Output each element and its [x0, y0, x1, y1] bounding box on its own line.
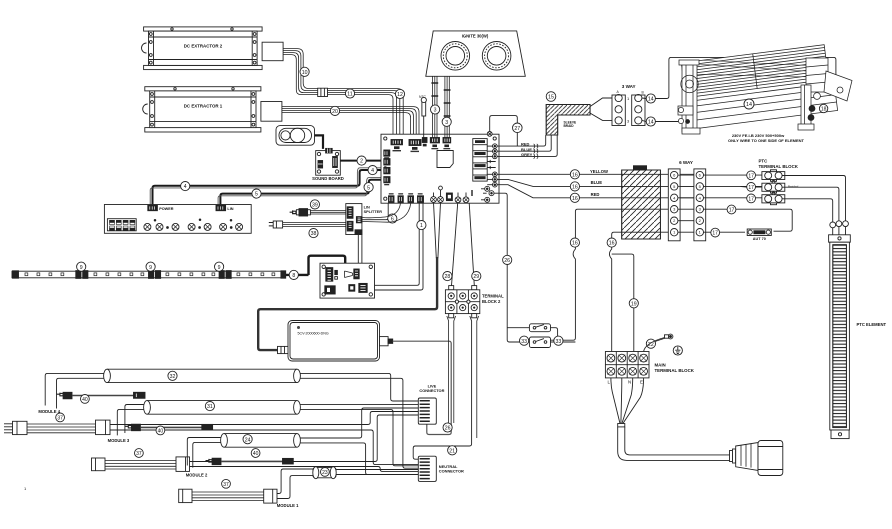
connector of DC extractor 1 — [261, 102, 282, 122]
tube 32 left wires — [45, 373, 103, 408]
sound board — [312, 148, 344, 181]
PTC element terminals — [830, 221, 849, 235]
label 9 — [215, 262, 224, 271]
svg-text:9: 9 — [80, 265, 83, 271]
wire 6-way pin 6 to PTC row 1 — [704, 174, 765, 176]
wire 6-way pin 1 to main terminal block L — [609, 232, 670, 351]
wire sleeve to 3-way pin 1 — [590, 98, 615, 107]
connector J4 (top) — [430, 138, 439, 150]
inline filter 23 — [313, 467, 336, 479]
wire PTC row2 to element terminal 2 — [782, 187, 839, 221]
brick barrel jack lead — [380, 337, 452, 435]
svg-text:28: 28 — [445, 274, 451, 280]
wire RED to braid sleeve — [497, 135, 546, 146]
wire 6-way pin 3 to switches — [551, 209, 671, 340]
svg-text:ONLY WIRE TO ONE SIDE OF ELEME: ONLY WIRE TO ONE SIDE OF ELEMENT — [728, 138, 804, 143]
svg-text:33: 33 — [521, 339, 527, 345]
svg-text:27: 27 — [514, 126, 520, 132]
audio jack lead 39 — [290, 209, 346, 216]
wire BLUE: PCB to 6-way pin 5 — [497, 179, 696, 186]
wire 2: sound board to PCB — [340, 160, 384, 162]
main terminal block — [605, 352, 649, 378]
label 23 — [321, 468, 330, 477]
relay output terminals — [487, 144, 497, 187]
PCB top-right screw terminal — [487, 132, 492, 137]
svg-text:POWER: POWER — [159, 207, 174, 211]
label 18 — [819, 104, 827, 112]
microcontroller chip U1 — [437, 151, 453, 168]
svg-text:6 WAY: 6 WAY — [679, 160, 693, 165]
hatched isolation block — [622, 165, 661, 239]
PTC terminal block row 3 — [762, 195, 785, 205]
label 16 — [607, 238, 616, 247]
NTC thermistor — [419, 95, 427, 138]
SEC_J — [4, 369, 418, 508]
svg-text:E: E — [640, 380, 643, 385]
wire 6-way pin 1 to thermal cutout (left side) — [704, 231, 746, 233]
svg-text:MODULE 1: MODULE 1 — [277, 503, 299, 508]
label 9 — [77, 262, 86, 271]
wire PTC row3 to element terminal 1 — [782, 199, 833, 222]
SEC_B — [381, 95, 557, 203]
wire 3-way B3 to fan lower terminal — [655, 121, 687, 123]
fan motor — [806, 58, 852, 101]
svg-text:PTC: PTC — [759, 159, 769, 164]
glass tube 32 — [104, 369, 301, 382]
wire BLUE to braid sleeve — [497, 135, 551, 151]
svg-text:40: 40 — [82, 397, 88, 403]
label 26 — [503, 255, 512, 264]
label 27 — [513, 123, 523, 133]
wire break marks — [534, 144, 538, 148]
label 1 — [417, 221, 426, 230]
strip end cap — [281, 271, 286, 278]
control panel — [104, 205, 251, 234]
fan right end flange — [798, 85, 814, 130]
SEC_E — [497, 159, 886, 439]
speaker cable left — [431, 76, 438, 137]
label 16 — [570, 193, 579, 202]
DC extractor 1 — [143, 87, 261, 132]
svg-text:14: 14 — [648, 120, 654, 126]
svg-text:LIN: LIN — [227, 207, 233, 211]
svg-text:14: 14 — [746, 102, 752, 108]
DC extractor 2 — [142, 27, 263, 70]
svg-text:16: 16 — [572, 196, 578, 202]
svg-text:11: 11 — [347, 92, 352, 98]
label 3 — [431, 105, 440, 114]
label 33 — [520, 336, 529, 345]
svg-text:10: 10 — [302, 70, 308, 76]
svg-text:33: 33 — [556, 339, 562, 345]
svg-text:14: 14 — [648, 97, 654, 103]
wire PTC row1 to element terminal 3 — [782, 176, 845, 221]
svg-text:GREY: GREY — [521, 152, 533, 157]
knobs — [144, 219, 243, 231]
svg-text:38: 38 — [311, 231, 317, 237]
filter wires to neutral connector — [336, 470, 418, 475]
connector B4 (bottom) — [418, 193, 424, 202]
svg-text:16: 16 — [572, 185, 578, 191]
tube 24 left wires — [187, 438, 220, 468]
wire 6-way pin 5 to PTC row 2 — [704, 185, 765, 188]
wire sleeve to 3-way pin 3 — [590, 113, 615, 120]
label 17 — [747, 194, 756, 203]
wire switch outputs to 6-way pin 3 net — [551, 328, 576, 342]
svg-text:Braided: Braided — [788, 185, 799, 189]
wire 6: splitter to PCB — [362, 203, 388, 220]
svg-text:RED: RED — [591, 192, 600, 197]
mains cord — [618, 424, 730, 461]
wire TB2 col3 second — [477, 316, 479, 438]
power brick — [288, 321, 380, 362]
speaker — [276, 126, 315, 146]
connector RF (left, unwired) — [384, 150, 390, 159]
SEC_F — [605, 334, 782, 475]
svg-text:39: 39 — [312, 203, 318, 209]
label 14 — [642, 117, 656, 126]
relay block K1 — [473, 139, 487, 182]
bottom-right terminals — [481, 186, 494, 202]
thick supply wire PCB to power brick — [258, 202, 440, 353]
jack lead 40 — [125, 424, 213, 431]
svg-text:N: N — [628, 380, 631, 385]
3-way terminal block column A — [612, 94, 625, 125]
svg-text:LIN: LIN — [364, 206, 370, 210]
earth symbol — [673, 346, 682, 355]
wire PCB to switches — [494, 193, 529, 342]
svg-text:TERMINAL BLOCK: TERMINAL BLOCK — [759, 164, 799, 169]
svg-text:5CV-2000600-DNG: 5CV-2000600-DNG — [298, 332, 329, 336]
svg-text:17: 17 — [712, 231, 718, 237]
connector LIN — [216, 205, 226, 210]
braid sleeve (L-shaped, hatched) — [546, 105, 590, 136]
svg-text:5: 5 — [367, 185, 370, 191]
svg-text:BLUE: BLUE — [521, 147, 532, 152]
svg-text:16: 16 — [572, 241, 578, 247]
label 2 — [357, 156, 366, 165]
svg-text:1: 1 — [420, 223, 423, 229]
tube 32 right wires to connectors — [300, 373, 418, 401]
label 17 — [747, 183, 756, 192]
svg-text:SOUND BOARD: SOUND BOARD — [312, 176, 344, 181]
svg-text:19: 19 — [631, 301, 637, 307]
module 3 lead — [92, 457, 190, 472]
svg-text:40: 40 — [158, 429, 164, 435]
svg-text:16: 16 — [572, 172, 578, 178]
label 32 — [168, 371, 177, 380]
connector B1 (bottom) — [389, 193, 395, 202]
svg-text:26: 26 — [445, 426, 451, 432]
fan motor terminals — [809, 106, 815, 112]
LIN splitter — [346, 204, 382, 235]
module 3 wires to connectors — [190, 415, 419, 462]
neutral push-wire connector — [418, 456, 464, 481]
PTC terminal block row 1 — [762, 170, 785, 184]
svg-text:37: 37 — [136, 451, 142, 457]
SEC_H — [258, 200, 504, 482]
wire GREY to braid sleeve — [497, 135, 557, 156]
wires PCB B2/B3 to splitter — [362, 203, 400, 218]
splitter to LED driver board pair — [358, 235, 362, 264]
svg-text:32: 32 — [170, 374, 176, 380]
SEC_C — [426, 31, 526, 137]
label 9 — [146, 262, 155, 271]
connector J5 (top) — [443, 138, 451, 150]
label 11 — [345, 89, 354, 98]
svg-text:TERMINAL: TERMINAL — [482, 293, 504, 298]
svg-text:15: 15 — [548, 95, 554, 101]
mains cord wires converging — [611, 378, 644, 424]
terminal block 2 — [445, 286, 504, 318]
svg-text:4: 4 — [371, 168, 374, 174]
3-way terminal block column B — [632, 94, 645, 125]
svg-text:9: 9 — [149, 265, 152, 271]
earth wire to block — [644, 338, 665, 352]
svg-text:IGNITE 30(W): IGNITE 30(W) — [462, 33, 489, 38]
SEC_I — [12, 205, 309, 280]
jack lead 40 — [57, 392, 146, 399]
label 26 — [443, 423, 452, 432]
wire branch to switch 1 — [507, 327, 529, 329]
wire TB2 col3 to neutral connector — [413, 316, 471, 459]
label 24 — [243, 435, 252, 444]
svg-text:CONNECTOR: CONNECTOR — [439, 469, 464, 474]
label 37 — [222, 479, 231, 488]
label MAIN TERMINAL BLOCK — [655, 363, 695, 374]
label 33 — [554, 336, 563, 345]
svg-text:TERMINAL BLOCK: TERMINAL BLOCK — [655, 368, 695, 373]
svg-text:3: 3 — [434, 108, 437, 114]
svg-text:AUT 70: AUT 70 — [753, 237, 766, 241]
switch SW1 — [529, 324, 550, 332]
fan caption — [728, 133, 804, 143]
svg-text:YELLOW: YELLOW — [590, 169, 608, 174]
label 29 — [472, 272, 481, 281]
speaker box IGNITE 30(W) — [426, 31, 526, 76]
label 15 — [546, 92, 556, 102]
label 21 — [448, 446, 457, 455]
label 40 — [81, 395, 90, 404]
svg-text:16: 16 — [609, 241, 615, 247]
svg-text:8: 8 — [292, 273, 295, 279]
wire pair TB2 col1 down — [447, 316, 456, 428]
connector of DC extractor 2 — [262, 42, 283, 61]
svg-text:5: 5 — [255, 192, 258, 198]
label 17 — [711, 228, 720, 237]
strip joint connector — [149, 271, 161, 279]
tube 31 right wires to connectors — [300, 404, 418, 406]
label 8 — [289, 270, 298, 279]
label 37 — [135, 449, 144, 458]
wire 27 from PCB to RED net — [490, 116, 518, 147]
svg-text:MODULE 2: MODULE 2 — [186, 473, 208, 478]
label 14 — [642, 94, 656, 103]
label 12 — [395, 89, 404, 98]
PTC terminal block row 2 — [762, 183, 799, 195]
svg-text:40: 40 — [253, 451, 259, 457]
SEC_G — [494, 193, 575, 347]
wire pair 1: driver board to PCB B4 — [375, 203, 420, 285]
earth spade terminal — [654, 334, 673, 342]
glass tube 24 — [221, 434, 301, 448]
mains plug — [730, 441, 783, 476]
connector J1 (top) — [391, 140, 403, 152]
label 5 — [252, 189, 261, 198]
label 10 — [300, 67, 309, 76]
connector B2 (bottom) — [398, 193, 403, 202]
PTC element — [829, 235, 851, 439]
wire LED strip to driver board — [309, 256, 346, 275]
svg-text:BLOCK 2: BLOCK 2 — [482, 299, 501, 304]
lead 38 — [269, 221, 346, 228]
wire bundle from DC extractor 2 — [283, 49, 403, 138]
svg-text:17: 17 — [729, 208, 735, 214]
connector LIN (left, wire 5) — [384, 177, 390, 186]
svg-text:23: 23 — [322, 470, 328, 476]
wire RED: PCB to 6-way pin 4 — [497, 185, 696, 198]
strip joint connector — [76, 271, 88, 279]
svg-text:DC EXTRACTOR 1: DC EXTRACTOR 1 — [184, 104, 223, 109]
connector SPK (left, wire 2) — [384, 159, 390, 165]
fan left end flange — [679, 60, 700, 134]
wire 6-way pin 4 to PTC row 3 — [704, 197, 765, 199]
svg-text:21: 21 — [449, 448, 455, 454]
svg-text:3 WAY: 3 WAY — [622, 84, 636, 89]
svg-text:NTC: NTC — [419, 95, 427, 99]
speaker cable right — [444, 76, 451, 137]
svg-text:SPLITTER: SPLITTER — [364, 210, 383, 214]
SEC_A — [150, 126, 384, 205]
wire bundle from DC extractor 1 — [282, 107, 419, 138]
svg-text:37: 37 — [223, 482, 229, 488]
labels L N E — [608, 380, 644, 385]
module 1 wires to filter — [277, 469, 313, 494]
label 16 — [570, 170, 579, 179]
svg-text:18: 18 — [821, 107, 827, 113]
svg-text:RED: RED — [521, 141, 530, 146]
tube 24 right wires to connectors — [300, 408, 418, 438]
switch SW2 — [529, 337, 550, 348]
bottom screw terminals 28/29 posts — [431, 186, 472, 203]
thermal cutout AUT 70 — [747, 229, 771, 241]
live push-wire connector — [418, 383, 444, 424]
svg-text:3: 3 — [445, 120, 448, 126]
svg-text:MODULE 3: MODULE 3 — [108, 438, 130, 443]
svg-text:17: 17 — [748, 197, 754, 203]
wire YELLOW: PCB to 6-way pin 6 — [497, 173, 696, 175]
DIP switch block — [107, 219, 136, 231]
svg-text:29: 29 — [473, 274, 479, 280]
label 17 — [747, 171, 756, 180]
PTC terminal block label — [759, 159, 799, 169]
main control PCB — [381, 134, 499, 203]
connector J2 (top) — [409, 140, 421, 153]
svg-text:CONNECTOR: CONNECTOR — [419, 388, 444, 393]
label 3 — [442, 117, 451, 126]
label 4 — [368, 166, 377, 175]
wire 3-way B1 to fan motor (loop over top) — [655, 57, 836, 98]
svg-text:PTC ELEMENT: PTC ELEMENT — [857, 322, 887, 327]
svg-text:37: 37 — [57, 416, 63, 422]
wire 6-way pin 3 to thermal cutout (right side) — [704, 209, 793, 231]
wire 4: control panel POWER to PCB — [153, 170, 385, 205]
svg-text:20: 20 — [332, 109, 338, 115]
wire 28: PCB to TB2 — [452, 203, 458, 286]
label 6 — [388, 214, 397, 223]
strip joint connector — [219, 271, 231, 279]
6-way terminal strip column 1 — [668, 169, 680, 241]
label 19 — [629, 299, 638, 308]
tube 31 left wires — [117, 405, 143, 436]
svg-text:31: 31 — [207, 404, 213, 410]
LED strip — [12, 271, 309, 279]
wire branch to main terminal block N — [612, 254, 634, 351]
svg-text:BRAID: BRAID — [564, 124, 575, 128]
svg-text:26: 26 — [504, 258, 510, 264]
crossflow fan blower — [678, 44, 852, 134]
glass tube 31 — [144, 401, 301, 415]
label 16 — [570, 238, 579, 247]
connector PWR (left, wire 4) — [384, 167, 390, 173]
label 40 — [156, 426, 165, 435]
connector POWER — [148, 205, 158, 210]
label 16 — [570, 182, 579, 191]
6-way jumper wires — [678, 175, 696, 232]
svg-text:2: 2 — [360, 159, 363, 165]
3 WAY labels — [617, 84, 645, 123]
svg-text:4: 4 — [184, 184, 187, 190]
wire speaker to sound board — [315, 135, 324, 149]
wire 5: control panel LIN to PCB — [220, 180, 384, 205]
svg-text:MODULE 4: MODULE 4 — [38, 409, 60, 414]
inline barrel connector on bundle — [318, 88, 328, 96]
svg-text:9: 9 — [218, 265, 221, 271]
label 39 — [310, 200, 319, 209]
label 37 — [56, 413, 65, 422]
fan left lower bracket — [678, 106, 693, 124]
label 14 — [744, 99, 754, 109]
svg-text:17: 17 — [748, 185, 754, 191]
connector B3 (bottom) — [408, 193, 414, 202]
label 28 — [443, 272, 452, 281]
label 17 — [727, 205, 736, 214]
module 4 wires to connectors — [110, 412, 418, 425]
label 31 — [205, 402, 214, 411]
label 4 — [181, 182, 190, 191]
label 20 — [330, 106, 339, 115]
label 40 — [251, 449, 260, 458]
svg-text:BLUE: BLUE — [591, 180, 603, 185]
svg-text:DC EXTRACTOR 2: DC EXTRACTOR 2 — [184, 44, 223, 49]
svg-text:17: 17 — [748, 173, 754, 179]
label 5 — [364, 183, 373, 192]
wire 29: PCB to TB2 — [469, 203, 474, 286]
label 22 — [646, 339, 655, 348]
connector J3 (top small) — [422, 138, 427, 147]
svg-text:24: 24 — [245, 437, 251, 443]
module 4 lead — [4, 420, 110, 435]
svg-text:MAIN: MAIN — [655, 363, 666, 368]
LED driver board — [320, 263, 375, 298]
6-way terminal strip column 2 — [694, 169, 706, 241]
module 1 lead — [179, 489, 277, 503]
svg-text:12: 12 — [397, 92, 403, 98]
jack lead 40 — [206, 458, 294, 465]
label 38 — [309, 229, 318, 238]
